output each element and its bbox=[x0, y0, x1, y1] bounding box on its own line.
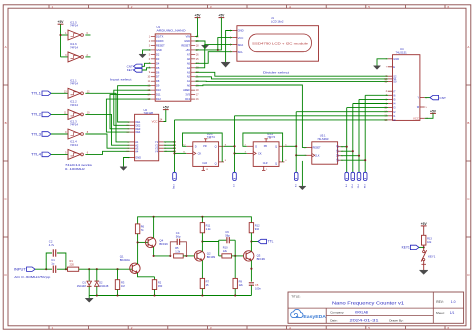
resistor R10 12k bbox=[219, 255, 222, 257]
svg-text:PR: PR bbox=[264, 145, 268, 148]
svg-text:D3: D3 bbox=[156, 57, 160, 61]
pin D4 of U1 bbox=[151, 62, 155, 64]
pin S0 of U4 bbox=[388, 81, 393, 83]
connector TP6 bbox=[357, 172, 361, 180]
pin S2 of U4 bbox=[388, 75, 393, 77]
connector TP4 bbox=[345, 172, 349, 180]
wire C1 to R1 bbox=[57, 268, 68, 270]
pin RESET of U5 bbox=[307, 146, 312, 148]
pin A1 of U1 bbox=[191, 80, 195, 82]
pin GND of U1 bbox=[151, 49, 155, 51]
svg-text:R6: R6 bbox=[141, 225, 145, 229]
svg-text:Input select: Input select bbox=[110, 77, 132, 81]
svg-text:74F14: 74F14 bbox=[70, 23, 78, 27]
node Q0 vertical bbox=[346, 108, 348, 173]
svg-text:2024-01-31: 2024-01-31 bbox=[350, 318, 379, 322]
svg-text:SSD4790 LCD + I2C module: SSD4790 LCD + I2C module bbox=[252, 42, 309, 46]
wire TTL1 to inverter bbox=[51, 92, 68, 94]
wire QD to divider mux bbox=[341, 159, 366, 161]
svg-text:A6: A6 bbox=[187, 57, 191, 61]
pin D12 of U1 bbox=[151, 98, 155, 100]
svg-text:QA: QA bbox=[336, 145, 339, 149]
capacitor C4 bypass bbox=[170, 242, 177, 256]
svg-text:VCC: VCC bbox=[152, 120, 158, 124]
pin CLR of U3.2 bbox=[263, 166, 265, 170]
svg-text:A: A bbox=[467, 45, 469, 49]
svg-text:CLR: CLR bbox=[263, 162, 268, 165]
svg-text:OE2: OE2 bbox=[135, 123, 141, 127]
resistor R11 1.2k bbox=[201, 217, 203, 223]
svg-text:KEY: KEY bbox=[127, 68, 133, 72]
pin A3 of U1 bbox=[191, 71, 195, 73]
wire U5 ground stem bbox=[301, 161, 303, 186]
pin RESET of U1 bbox=[191, 44, 195, 46]
capacitor C6 bbox=[219, 239, 227, 241]
junction bbox=[96, 268, 98, 270]
pin D1 of U4 bbox=[388, 115, 393, 117]
resistor R7 15 bbox=[201, 261, 203, 279]
pin D1/TX of U1 bbox=[151, 36, 155, 38]
pin W of U4 bbox=[420, 106, 425, 108]
svg-text:D0/RX: D0/RX bbox=[156, 39, 164, 43]
ground (U5) bbox=[299, 186, 306, 190]
svg-text:QB: QB bbox=[336, 149, 338, 153]
svg-text:100n: 100n bbox=[255, 287, 261, 291]
junction bbox=[88, 268, 90, 270]
svg-text:GND: GND bbox=[393, 57, 399, 61]
svg-text:D9: D9 bbox=[156, 84, 160, 88]
pin RESET of U1 bbox=[151, 44, 155, 46]
pin VIN of U1 bbox=[191, 36, 195, 38]
connector J1 LCD 16x2 bbox=[237, 26, 319, 62]
pin D0/RX of U1 bbox=[151, 40, 155, 42]
wire Q4 emitter to R5 node bbox=[154, 247, 171, 256]
inverter IC1.3 bbox=[68, 129, 81, 139]
svg-text:BF199: BF199 bbox=[207, 255, 216, 259]
pin CK of U3.2 bbox=[247, 152, 254, 154]
junction bbox=[137, 241, 139, 243]
junction bbox=[201, 240, 203, 242]
pin D of U3.1 bbox=[186, 145, 193, 147]
wire tie to FF1 CK bbox=[175, 152, 187, 154]
svg-text:A5: A5 bbox=[187, 61, 191, 65]
svg-text:+5V: +5V bbox=[58, 20, 65, 24]
wire Y to CNT flag bbox=[425, 97, 430, 99]
pin D of U3.2 bbox=[247, 145, 254, 147]
inverter IC1.6 bbox=[68, 52, 81, 62]
wire Q1 emitter to R2 bbox=[138, 273, 155, 277]
svg-text:Date:: Date: bbox=[330, 318, 338, 322]
svg-text:S0: S0 bbox=[393, 80, 397, 84]
pin PR of U3.1 bbox=[205, 139, 207, 142]
wire rail to ground bbox=[88, 296, 90, 299]
connector CNT out bbox=[430, 95, 439, 99]
svg-text:TTL3: TTL3 bbox=[31, 132, 41, 136]
pin GND of J1 bbox=[232, 30, 237, 32]
junction bbox=[233, 152, 235, 154]
pin VCC of J1 bbox=[232, 37, 237, 39]
svg-text:1.2k: 1.2k bbox=[206, 227, 212, 231]
pin A6 of U1 bbox=[191, 58, 195, 60]
wire +5V to VIN bbox=[195, 18, 197, 37]
connector TP2 bbox=[233, 172, 237, 180]
svg-text:CLK: CLK bbox=[315, 154, 320, 157]
svg-text:A1: A1 bbox=[187, 79, 191, 83]
pin 7 of U4 bbox=[388, 66, 393, 68]
wire input-select 2 (U1 D10 to U2 OE2) bbox=[114, 90, 151, 125]
pin Qbar of U3.1 bbox=[219, 161, 224, 163]
capacitor C1 bbox=[52, 266, 54, 273]
pin CLK of U5 bbox=[307, 154, 312, 156]
svg-text:CK: CK bbox=[258, 152, 262, 156]
pin OE3 of U2 bbox=[130, 128, 135, 130]
svg-text:B: B bbox=[467, 121, 469, 125]
pin CK of U3.1 bbox=[186, 152, 193, 154]
capacitor C2 branch bbox=[46, 253, 52, 269]
svg-text:R12: R12 bbox=[255, 224, 260, 228]
svg-text:SDA: SDA bbox=[238, 43, 244, 47]
svg-text:R10: R10 bbox=[223, 245, 228, 249]
svg-text:1M: 1M bbox=[121, 284, 125, 288]
svg-text:4.7u: 4.7u bbox=[49, 243, 55, 247]
pin D5 of U4 bbox=[388, 98, 393, 100]
svg-text:TTL2: TTL2 bbox=[31, 113, 41, 117]
pin 3V3 of U1 bbox=[191, 94, 195, 96]
svg-text:CLR: CLR bbox=[202, 162, 207, 165]
svg-text:220: 220 bbox=[70, 263, 75, 267]
junction bbox=[346, 146, 348, 148]
wire KEY1 flag to node bbox=[419, 246, 424, 248]
svg-text:74F14: 74F14 bbox=[70, 45, 78, 49]
svg-text:A0: A0 bbox=[187, 84, 191, 88]
wire to Q3 base bbox=[235, 255, 244, 257]
svg-text:TTL1: TTL1 bbox=[31, 92, 41, 96]
svg-text:+5V: +5V bbox=[218, 14, 225, 18]
svg-text:+5V: +5V bbox=[430, 109, 437, 113]
svg-text:D2: D2 bbox=[156, 52, 160, 56]
svg-text:VCC: VCC bbox=[413, 116, 419, 120]
svg-text:+5V: +5V bbox=[195, 14, 202, 18]
svg-text:Q: Q bbox=[275, 144, 277, 148]
wire +5V to U2 VCC bbox=[164, 110, 166, 122]
ground (analog) bbox=[85, 298, 93, 302]
svg-text:R9: R9 bbox=[239, 280, 243, 284]
svg-text:R11: R11 bbox=[206, 224, 211, 228]
svg-text:TTL: TTL bbox=[268, 240, 274, 244]
wire Q3 emitter bbox=[250, 261, 252, 282]
svg-text:BF240A: BF240A bbox=[120, 258, 130, 262]
pin A1 of U2 bbox=[130, 141, 135, 143]
junction bbox=[233, 145, 235, 147]
pin D9 of U1 bbox=[151, 85, 155, 87]
pin D7 of U1 bbox=[151, 76, 155, 78]
svg-text:D11: D11 bbox=[156, 93, 161, 97]
wire Y1 to tie node bbox=[164, 141, 175, 143]
pin A4 of U1 bbox=[191, 67, 195, 69]
wire +5V to U4 VCC bbox=[425, 113, 433, 118]
svg-text:VCC: VCC bbox=[238, 36, 244, 40]
svg-text:PR: PR bbox=[203, 145, 207, 148]
svg-text:Q: Q bbox=[215, 162, 217, 166]
IC U4 74LS151 bbox=[393, 55, 420, 121]
pin VCC 16 of U4 bbox=[420, 117, 425, 119]
wire IC1.6 output bbox=[85, 56, 90, 58]
connector TP1 bbox=[173, 172, 177, 180]
svg-text:R3: R3 bbox=[121, 280, 125, 284]
svg-text:A: A bbox=[5, 45, 7, 49]
svg-text:74F128: 74F128 bbox=[144, 111, 154, 115]
wire TTL4 to inverter bbox=[51, 153, 68, 155]
svg-text:D1/TX: D1/TX bbox=[156, 35, 164, 39]
pin QC of U5 bbox=[338, 155, 341, 157]
wire LCD GND to ground bbox=[226, 31, 233, 63]
junction bbox=[153, 294, 155, 296]
junction tie/CK bbox=[173, 152, 175, 154]
pin D6 of U4 bbox=[388, 94, 393, 96]
push button KEY1 bbox=[423, 251, 425, 253]
supply rail bbox=[138, 217, 252, 224]
svg-text:TTL4: TTL4 bbox=[31, 153, 41, 157]
junction bbox=[364, 159, 366, 161]
junction bbox=[295, 154, 297, 156]
flip-flop U3.1 74F74 bbox=[193, 142, 219, 167]
junction bbox=[45, 268, 47, 270]
junction bbox=[358, 155, 360, 157]
wire R1 to Q1 base bbox=[79, 268, 133, 270]
svg-text:1.0: 1.0 bbox=[451, 300, 456, 304]
pin Y of U4 bbox=[420, 97, 425, 99]
pin D7 of U4 bbox=[388, 90, 393, 92]
svg-text:1N4148: 1N4148 bbox=[77, 284, 87, 288]
svg-text:BF199: BF199 bbox=[257, 257, 266, 261]
node Q3 vertical bbox=[364, 95, 366, 172]
svg-text:RESET: RESET bbox=[313, 147, 322, 150]
IC U1 ARDUINO_NANO bbox=[155, 34, 191, 101]
junction bbox=[59, 34, 61, 36]
ground (KEY1) bbox=[419, 270, 428, 274]
ground (U2) bbox=[120, 167, 127, 171]
pin VCC 14 of U2 bbox=[159, 121, 164, 123]
connector TP3 bbox=[294, 172, 298, 180]
resistor R6 7k bbox=[135, 224, 139, 234]
pin D2 of U4 bbox=[388, 111, 393, 113]
svg-text:1u: 1u bbox=[51, 262, 55, 266]
wire node to U5 CLK bbox=[296, 154, 306, 156]
wire input-select 4 (U1 D12 to U2 OE4) bbox=[106, 99, 150, 132]
svg-text:A4: A4 bbox=[187, 66, 191, 70]
capacitor C2 bbox=[52, 249, 54, 256]
node Q1 vertical bbox=[352, 104, 354, 173]
pin A2 of U2 bbox=[130, 144, 135, 146]
wire TTL2 to inverter bbox=[51, 113, 68, 115]
resistor R5 1.2k bbox=[174, 254, 184, 258]
junction bbox=[234, 255, 236, 257]
junction bbox=[250, 240, 252, 242]
svg-text:GND: GND bbox=[135, 156, 141, 160]
wire inverter IC1.1 output to U2 A1 bbox=[85, 93, 129, 142]
transistor Q4 BF199 bbox=[146, 237, 156, 247]
wire Q2 collector to C6 network bbox=[202, 241, 218, 243]
wire inverter IC1.4 output to U2 A4 bbox=[85, 151, 129, 154]
junction bbox=[96, 294, 98, 296]
resistor R1 bbox=[68, 267, 79, 271]
transistor Q1 BF240A bbox=[130, 263, 140, 273]
svg-text:A4: A4 bbox=[135, 149, 139, 153]
node FF1 vertical bbox=[234, 116, 236, 173]
wire Y3 to tie node bbox=[164, 147, 175, 149]
pin Q of U3.1 bbox=[219, 145, 224, 147]
node Q2 vertical bbox=[358, 99, 360, 172]
resistor R12 910 bbox=[249, 223, 253, 233]
wire U3.1 Q to node bbox=[224, 145, 235, 147]
svg-text:R2: R2 bbox=[158, 280, 162, 284]
pin GND of U1 bbox=[191, 40, 195, 42]
wire U1 A1 to U4 S0 bbox=[195, 80, 388, 82]
pin A4 of U2 bbox=[130, 150, 135, 152]
svg-text:D8: D8 bbox=[156, 79, 160, 83]
pin CLR of U3.1 bbox=[202, 166, 204, 170]
svg-text:R13: R13 bbox=[427, 236, 432, 240]
svg-text:REV:: REV: bbox=[436, 300, 443, 304]
wire U4 GND to ground bbox=[377, 59, 388, 66]
svg-text:RESET: RESET bbox=[181, 43, 190, 47]
pin SCL of J1 bbox=[232, 51, 237, 53]
wire U1 A2 to U4 S1 bbox=[195, 77, 388, 79]
wire U1 A0 to U5 RESET bbox=[195, 85, 306, 147]
junction bbox=[352, 150, 354, 152]
wire to TTL flag bbox=[251, 241, 258, 243]
svg-text:Sheet:: Sheet: bbox=[436, 311, 445, 315]
wire inverter IC1.3 output to U2 A3 bbox=[85, 134, 129, 148]
svg-text:E: E bbox=[393, 65, 395, 69]
svg-text:BF199: BF199 bbox=[159, 242, 168, 246]
capacitor C5 100n bbox=[249, 282, 254, 284]
pin PR of U3.2 bbox=[265, 139, 267, 142]
wire Q4 collector bbox=[153, 217, 155, 238]
svg-text:Nano Frequency Counter v1: Nano Frequency Counter v1 bbox=[332, 301, 405, 306]
IC U2 74F128 bbox=[135, 114, 159, 161]
svg-text:D1: D1 bbox=[82, 280, 86, 284]
wire Y4 to tie node bbox=[164, 150, 175, 152]
wire to U4 bbox=[359, 98, 388, 100]
wire LCD VCC to +5V bbox=[218, 38, 232, 50]
pin A5 of U1 bbox=[191, 62, 195, 64]
ground rail (analog) bbox=[89, 295, 251, 297]
svg-text:D: D bbox=[255, 144, 257, 148]
pin Y2 of U2 bbox=[159, 144, 164, 146]
resistor R3 1M bbox=[117, 269, 119, 280]
svg-text:R7: R7 bbox=[206, 280, 210, 284]
junction bbox=[234, 294, 236, 296]
wire U2 GND to ground bbox=[124, 158, 130, 167]
pin AREF of U1 bbox=[191, 89, 195, 91]
svg-text:A3: A3 bbox=[187, 70, 191, 74]
pin A7 of U1 bbox=[191, 53, 195, 55]
svg-text:D13: D13 bbox=[185, 97, 190, 101]
svg-text:GND: GND bbox=[184, 39, 190, 43]
transistor Q3 BF199 bbox=[244, 251, 254, 261]
pin SDA of J1 bbox=[232, 44, 237, 46]
junction bbox=[153, 216, 155, 218]
wire TTL3 to inverter bbox=[51, 133, 68, 135]
svg-text:D10: D10 bbox=[156, 88, 161, 92]
ground (LCD) bbox=[221, 62, 230, 67]
pin +5V of U1 bbox=[191, 49, 195, 51]
svg-text:1N4148: 1N4148 bbox=[99, 284, 109, 288]
pin D3 of U1 bbox=[151, 58, 155, 60]
pin D4 of U4 bbox=[388, 103, 393, 105]
wire U1 A5 to LCD SCL bbox=[195, 52, 232, 64]
svg-text:910: 910 bbox=[255, 227, 260, 231]
pin GND of U2 bbox=[130, 157, 135, 159]
svg-text:74F14: 74F14 bbox=[70, 143, 78, 147]
svg-text:FRQ: FRQ bbox=[172, 185, 174, 190]
svg-text:74LS393: 74LS393 bbox=[317, 137, 329, 141]
pin A3 of U2 bbox=[130, 147, 135, 149]
svg-text:Q: Q bbox=[275, 162, 277, 166]
svg-text:Y4: Y4 bbox=[155, 149, 159, 153]
svg-text:+5V: +5V bbox=[185, 48, 190, 52]
svg-text:A2: A2 bbox=[187, 75, 191, 79]
junction bbox=[169, 255, 171, 257]
svg-text:12k: 12k bbox=[223, 249, 228, 253]
svg-text:KEY1: KEY1 bbox=[402, 246, 410, 250]
svg-text:LCD 16x2: LCD 16x2 bbox=[271, 20, 284, 24]
svg-text:74F14: 74F14 bbox=[70, 82, 78, 86]
pin D6 of U1 bbox=[151, 71, 155, 73]
svg-text:GND: GND bbox=[238, 29, 244, 33]
wire CNT to U1 D4 bbox=[142, 63, 151, 66]
svg-text:74F14: 74F14 bbox=[70, 103, 78, 107]
connector TP7 bbox=[363, 172, 367, 180]
wire input-select 3 (U1 D11 to U2 OE3) bbox=[110, 95, 151, 129]
node Y-tie vertical bbox=[174, 120, 176, 172]
svg-text:+5V: +5V bbox=[421, 222, 428, 226]
svg-text:A7: A7 bbox=[187, 52, 191, 56]
wire inverter IC1.2 output to U2 A2 bbox=[85, 114, 129, 145]
pin A0 of U1 bbox=[191, 85, 195, 87]
inverter IC1.5 bbox=[68, 30, 81, 40]
connector TTL out bbox=[258, 239, 267, 243]
svg-text:B: B bbox=[5, 121, 7, 125]
wire KEY to U1 D5 bbox=[142, 68, 151, 70]
svg-text:56p: 56p bbox=[225, 233, 230, 237]
pin OE1 of U2 bbox=[130, 121, 135, 123]
ground (U1 right) bbox=[202, 45, 209, 49]
svg-text:CNT: CNT bbox=[440, 96, 446, 100]
wire +5V to U1 5V bbox=[195, 18, 221, 50]
pin A2 of U1 bbox=[191, 76, 195, 78]
wire Y2 to tie node bbox=[164, 144, 175, 146]
junction bbox=[116, 294, 118, 296]
svg-text:D4: D4 bbox=[156, 61, 160, 65]
svg-text:Q: Q bbox=[215, 144, 217, 148]
junction bbox=[185, 255, 187, 257]
wire QA to divider mux bbox=[341, 146, 347, 148]
junction bbox=[153, 255, 155, 257]
inverter IC1.2 bbox=[68, 109, 81, 119]
wire to U4 bbox=[365, 94, 388, 96]
svg-text:AREF: AREF bbox=[183, 88, 190, 92]
IC U5 74LS393 bbox=[312, 142, 338, 164]
flip-flop U3.2 74F74 bbox=[253, 142, 279, 167]
wire +5V to R13 bbox=[423, 226, 425, 235]
diode D1 1N4148 bbox=[88, 269, 90, 281]
svg-text:INPUT: INPUT bbox=[14, 267, 26, 271]
pin QA of U5 bbox=[338, 146, 341, 148]
wire R6 to Q4 base / Q1 collector bbox=[137, 234, 139, 264]
junction bbox=[250, 268, 252, 270]
